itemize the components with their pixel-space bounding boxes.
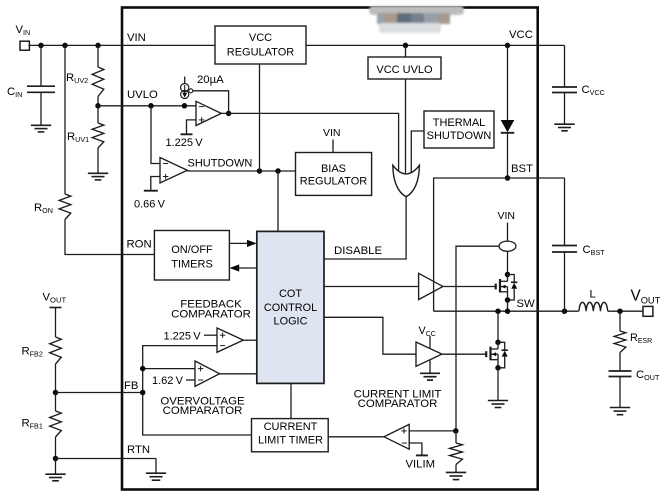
label CIN <box>7 86 22 99</box>
block THERMAL SHUTDOWN <box>424 111 494 148</box>
node FB divider <box>53 390 59 396</box>
sense element ellipse <box>499 241 516 251</box>
wire BST right <box>508 177 565 179</box>
label 1.62V <box>152 375 184 387</box>
svg-text:COMPARATOR: COMPARATOR <box>171 308 251 320</box>
capacitor CIN <box>27 86 55 92</box>
label VCC UVLO <box>376 64 433 76</box>
pin label RTN <box>127 444 150 456</box>
svg-text:VILIM: VILIM <box>406 459 436 471</box>
svg-text:THERMAL: THERMAL <box>433 117 486 129</box>
wire resr lead <box>619 311 621 331</box>
wire cbst to sw <box>564 252 566 311</box>
svg-text:BST: BST <box>511 163 533 175</box>
wire ls gate <box>442 353 486 355</box>
svg-text:SHUTDOWN: SHUTDOWN <box>427 130 492 142</box>
wire vccreg down <box>259 64 261 171</box>
resistor RFB2 <box>50 337 62 364</box>
node VIN-RON <box>62 43 68 49</box>
wire FB pin <box>56 392 143 394</box>
wire fb comp out <box>243 339 256 341</box>
svg-text:1.62 V: 1.62 V <box>152 375 184 387</box>
wire bias vin stub <box>332 140 334 153</box>
IC boundary box <box>122 8 538 490</box>
wire cot to clt <box>290 383 292 418</box>
label 1.225V uvlo <box>166 137 204 149</box>
wire CIN lead <box>40 45 42 86</box>
svg-text:VIN: VIN <box>323 127 341 139</box>
label RON resistor <box>34 202 53 215</box>
node shutdown-cot <box>275 168 281 174</box>
label RUV2 <box>66 72 88 85</box>
svg-text:1.225 V: 1.225 V <box>164 331 202 343</box>
resistor RFB1 lead <box>55 393 57 412</box>
svg-text:CURRENT: CURRENT <box>264 421 318 433</box>
svg-text:COMPARATOR: COMPARATOR <box>358 398 438 410</box>
wire RON top lead <box>64 45 66 194</box>
wire vcc stub ls <box>429 336 431 348</box>
pin label VIN <box>127 32 146 44</box>
svg-text:LIMIT TIMER: LIMIT TIMER <box>258 434 323 446</box>
node UVLO comp out <box>226 111 232 117</box>
wire RTN pin <box>56 458 157 460</box>
label RUV1 <box>67 131 89 144</box>
pin label SW <box>517 298 536 310</box>
node hs drain <box>505 272 511 278</box>
transistor Q2 <box>486 342 508 368</box>
wire VIN rail <box>29 44 215 46</box>
svg-text:RTN: RTN <box>127 444 150 456</box>
node VIN-RUV2 <box>95 43 101 49</box>
VOUT pad <box>643 306 653 316</box>
label COT CONTROL LOGIC <box>264 288 317 328</box>
diode D1 anode wire <box>507 45 509 120</box>
label THERMAL SHUTDOWN <box>427 117 492 142</box>
node BST <box>505 175 511 181</box>
wire RUV2 top lead <box>97 45 99 67</box>
node SW-lsdrain <box>495 308 501 314</box>
resistor RESR <box>614 331 626 353</box>
ref bar 0.66V <box>144 190 158 192</box>
label VIN bias <box>323 127 341 139</box>
label BIAS REGULATOR <box>300 163 367 187</box>
node UVLO divider <box>95 103 101 109</box>
resistor RFB1 <box>50 411 62 437</box>
svg-text:SW: SW <box>517 298 536 310</box>
ground CIN <box>31 125 51 132</box>
wire RON to pin <box>65 220 154 255</box>
wire BST left rail <box>434 178 508 311</box>
node VCC uvlo tap <box>403 43 409 49</box>
node VCC diode tap <box>505 43 511 49</box>
wire ilim ref <box>409 443 422 455</box>
transistor Q1 <box>496 275 518 301</box>
comparator U-FB <box>217 328 243 352</box>
wire vccuvlo to or <box>405 79 407 178</box>
wire RUV2 bottom lead <box>97 97 99 106</box>
wire UVLO <box>98 105 196 107</box>
pin label VCC <box>509 29 533 41</box>
node UVLO shutdown tap <box>148 103 154 109</box>
wire shutdown out <box>187 170 295 172</box>
comparator U-UVLO <box>196 101 221 125</box>
capacitor COUT <box>609 371 632 377</box>
wire vccuvlo top <box>405 45 407 57</box>
wire ls driver gnd <box>429 360 431 373</box>
ref bar VILIM <box>416 454 428 456</box>
ground RUV1 <box>88 173 108 180</box>
svg-text:FB: FB <box>124 380 138 392</box>
block BIAS REGULATOR <box>296 153 372 196</box>
wire VCC rail <box>306 44 565 46</box>
wire hs source to SW <box>507 300 509 311</box>
label 0.66V <box>134 199 166 211</box>
terminal bar VOUT <box>50 307 62 309</box>
wire cot top <box>277 171 279 231</box>
label 1.225V fb <box>164 331 202 343</box>
block VCC UVLO <box>368 57 441 79</box>
label OVERVOLTAGE COMPARATOR <box>160 396 245 417</box>
svg-text:1.225 V: 1.225 V <box>166 137 204 149</box>
label VOUT left <box>43 292 67 305</box>
wire 20uA to output node <box>193 91 229 114</box>
current source 20uA stub <box>184 77 186 84</box>
svg-text:L: L <box>590 289 596 301</box>
svg-text:0.66 V: 0.66 V <box>134 199 166 211</box>
wire clt to comparator <box>328 436 384 438</box>
block VCC REGULATOR <box>215 26 306 64</box>
wire sense stub <box>507 223 509 242</box>
watermark blur <box>369 6 464 33</box>
wire resr to cout <box>619 353 621 372</box>
label FEEDBACK COMPARATOR <box>171 299 251 321</box>
label VIN terminal <box>16 24 31 37</box>
svg-text:CONTROL: CONTROL <box>264 302 317 314</box>
wire 1.225V dash <box>204 334 217 336</box>
label RFB2 <box>22 346 43 359</box>
node ls drain <box>495 340 501 346</box>
label CVCC <box>582 84 605 97</box>
svg-text:VIN: VIN <box>127 32 146 44</box>
label L <box>590 289 596 301</box>
capacitor CVCC <box>552 87 577 93</box>
arrow cot to timers <box>229 264 256 271</box>
ground CVCC <box>554 124 574 131</box>
wire thermal to or <box>411 131 424 176</box>
svg-text:LOGIC: LOGIC <box>274 316 308 328</box>
wire ovp out <box>220 373 257 375</box>
resistor RON <box>59 194 71 220</box>
wire RUV1 to gnd <box>97 148 99 173</box>
comparator U-OVP <box>195 361 220 386</box>
wire or out / DISABLE <box>324 197 406 259</box>
svg-text:DISABLE: DISABLE <box>334 245 383 257</box>
driver U-HS <box>419 273 443 299</box>
resistor RILIM lead <box>455 431 457 443</box>
svg-text:COMPARATOR: COMPARATOR <box>163 405 243 417</box>
current source 20uA <box>181 84 193 99</box>
label RESR <box>630 332 652 345</box>
wire diode to BST <box>507 133 509 178</box>
svg-text:SHUTDOWN: SHUTDOWN <box>188 157 253 169</box>
wire cot to hs driver <box>324 286 419 288</box>
ground RILIM <box>446 465 466 480</box>
node RTN divider <box>53 456 59 462</box>
label CURRENT LIMIT COMPARATOR <box>354 388 442 410</box>
wire vout to rfb2 <box>55 308 57 338</box>
node ls source <box>495 365 501 371</box>
comparator U-ILIM <box>384 424 409 449</box>
wire rfb2 to node <box>55 364 57 393</box>
node hs source <box>505 297 511 303</box>
resistor RUV1 lead <box>97 106 99 123</box>
resistor RILIM <box>450 443 463 465</box>
ref bar 1.225V <box>181 133 193 135</box>
node ilim sense <box>453 428 459 434</box>
wire CIN to gnd <box>40 92 42 125</box>
wire fb comp minus <box>143 346 252 435</box>
VIN input pad <box>20 41 29 50</box>
label CURRENT LIMIT TIMER <box>258 421 323 447</box>
ground ls driver <box>420 373 440 380</box>
node FB inner <box>140 390 146 396</box>
wire 1.62V dash <box>186 379 195 381</box>
wire cvcc lead <box>564 45 566 87</box>
wire cot to ls driver <box>324 317 416 354</box>
svg-text:VCC: VCC <box>249 32 272 44</box>
wire L to vout <box>608 310 643 312</box>
label VILIM <box>406 459 436 471</box>
label VCC REGULATOR <box>227 32 294 59</box>
node shutdown-vccreg <box>257 168 263 174</box>
resistor RUV1 <box>92 123 104 148</box>
wire UVLO comp ref <box>187 120 197 134</box>
inductor L1 <box>579 302 608 311</box>
node SW-hssource <box>505 308 511 314</box>
wire cvcc gnd <box>564 93 566 125</box>
wire SW rail <box>434 310 579 312</box>
label CBST <box>583 244 606 257</box>
pin label RON <box>127 239 152 251</box>
node VOUT <box>617 308 623 314</box>
wire shutdown minus <box>151 106 160 164</box>
wire ls source gnd <box>497 368 499 401</box>
wire cbst lead <box>564 178 566 246</box>
node SW-cbst <box>562 308 568 314</box>
or gate U-OR <box>393 165 420 197</box>
svg-text:VCC UVLO: VCC UVLO <box>376 64 433 76</box>
ground RTN internal <box>146 459 166 481</box>
resistor RUV2 <box>92 67 104 97</box>
svg-text:ON/OFF: ON/OFF <box>171 244 213 256</box>
svg-text:VIN: VIN <box>498 210 516 222</box>
pin label BST <box>511 163 533 175</box>
wire cout gnd <box>619 377 621 408</box>
node VIN-CIN <box>38 43 44 49</box>
node fb-ovp <box>140 366 146 372</box>
wire rfb1 to rtn <box>55 437 57 459</box>
label 20uA <box>197 74 224 86</box>
ground COUT <box>610 408 630 415</box>
wire ovp plus <box>143 368 195 370</box>
ground ls mosfet <box>488 401 508 408</box>
pin label UVLO <box>127 89 158 101</box>
wire ilim plus <box>409 430 456 432</box>
svg-text:VCC: VCC <box>509 29 533 41</box>
label VOUT right <box>631 288 661 306</box>
wire UVLO comp out <box>221 113 398 176</box>
driver U-LS <box>416 342 442 366</box>
label Vcc driver <box>419 325 436 338</box>
block COT CONTROL LOGIC <box>257 231 324 383</box>
svg-text:UVLO: UVLO <box>127 89 158 101</box>
pin label FB <box>124 380 138 392</box>
wire sense to ilim <box>456 246 499 431</box>
capacitor CBST <box>552 246 577 253</box>
label SHUTDOWN <box>188 157 253 169</box>
label COUT <box>636 369 660 382</box>
wire sense to hs drain <box>507 251 509 274</box>
comparator U-SHUTDOWN <box>160 158 187 184</box>
svg-text:REGULATOR: REGULATOR <box>227 47 294 59</box>
svg-text:TIMERS: TIMERS <box>171 259 213 271</box>
wire ls drain <box>497 311 499 342</box>
node UVLO 20uA tap <box>182 103 188 109</box>
label ON/OFF TIMERS <box>171 244 213 271</box>
wire hs gate <box>443 286 496 288</box>
wire shutdown ref <box>151 177 160 190</box>
diode D1 <box>501 120 515 133</box>
block CURRENT LIMIT TIMER <box>252 419 329 452</box>
label VIN sense <box>498 210 516 222</box>
label DISABLE <box>334 245 383 257</box>
block ON/OFF TIMERS <box>154 231 229 281</box>
svg-text:REGULATOR: REGULATOR <box>300 175 367 187</box>
svg-text:RON: RON <box>127 239 152 251</box>
label RFB1 <box>22 418 43 431</box>
svg-text:COT: COT <box>279 288 302 300</box>
svg-text:BIAS: BIAS <box>321 163 346 175</box>
arrow timers to cot <box>229 240 256 247</box>
ground divider <box>45 459 65 481</box>
svg-text:20µA: 20µA <box>197 74 224 86</box>
